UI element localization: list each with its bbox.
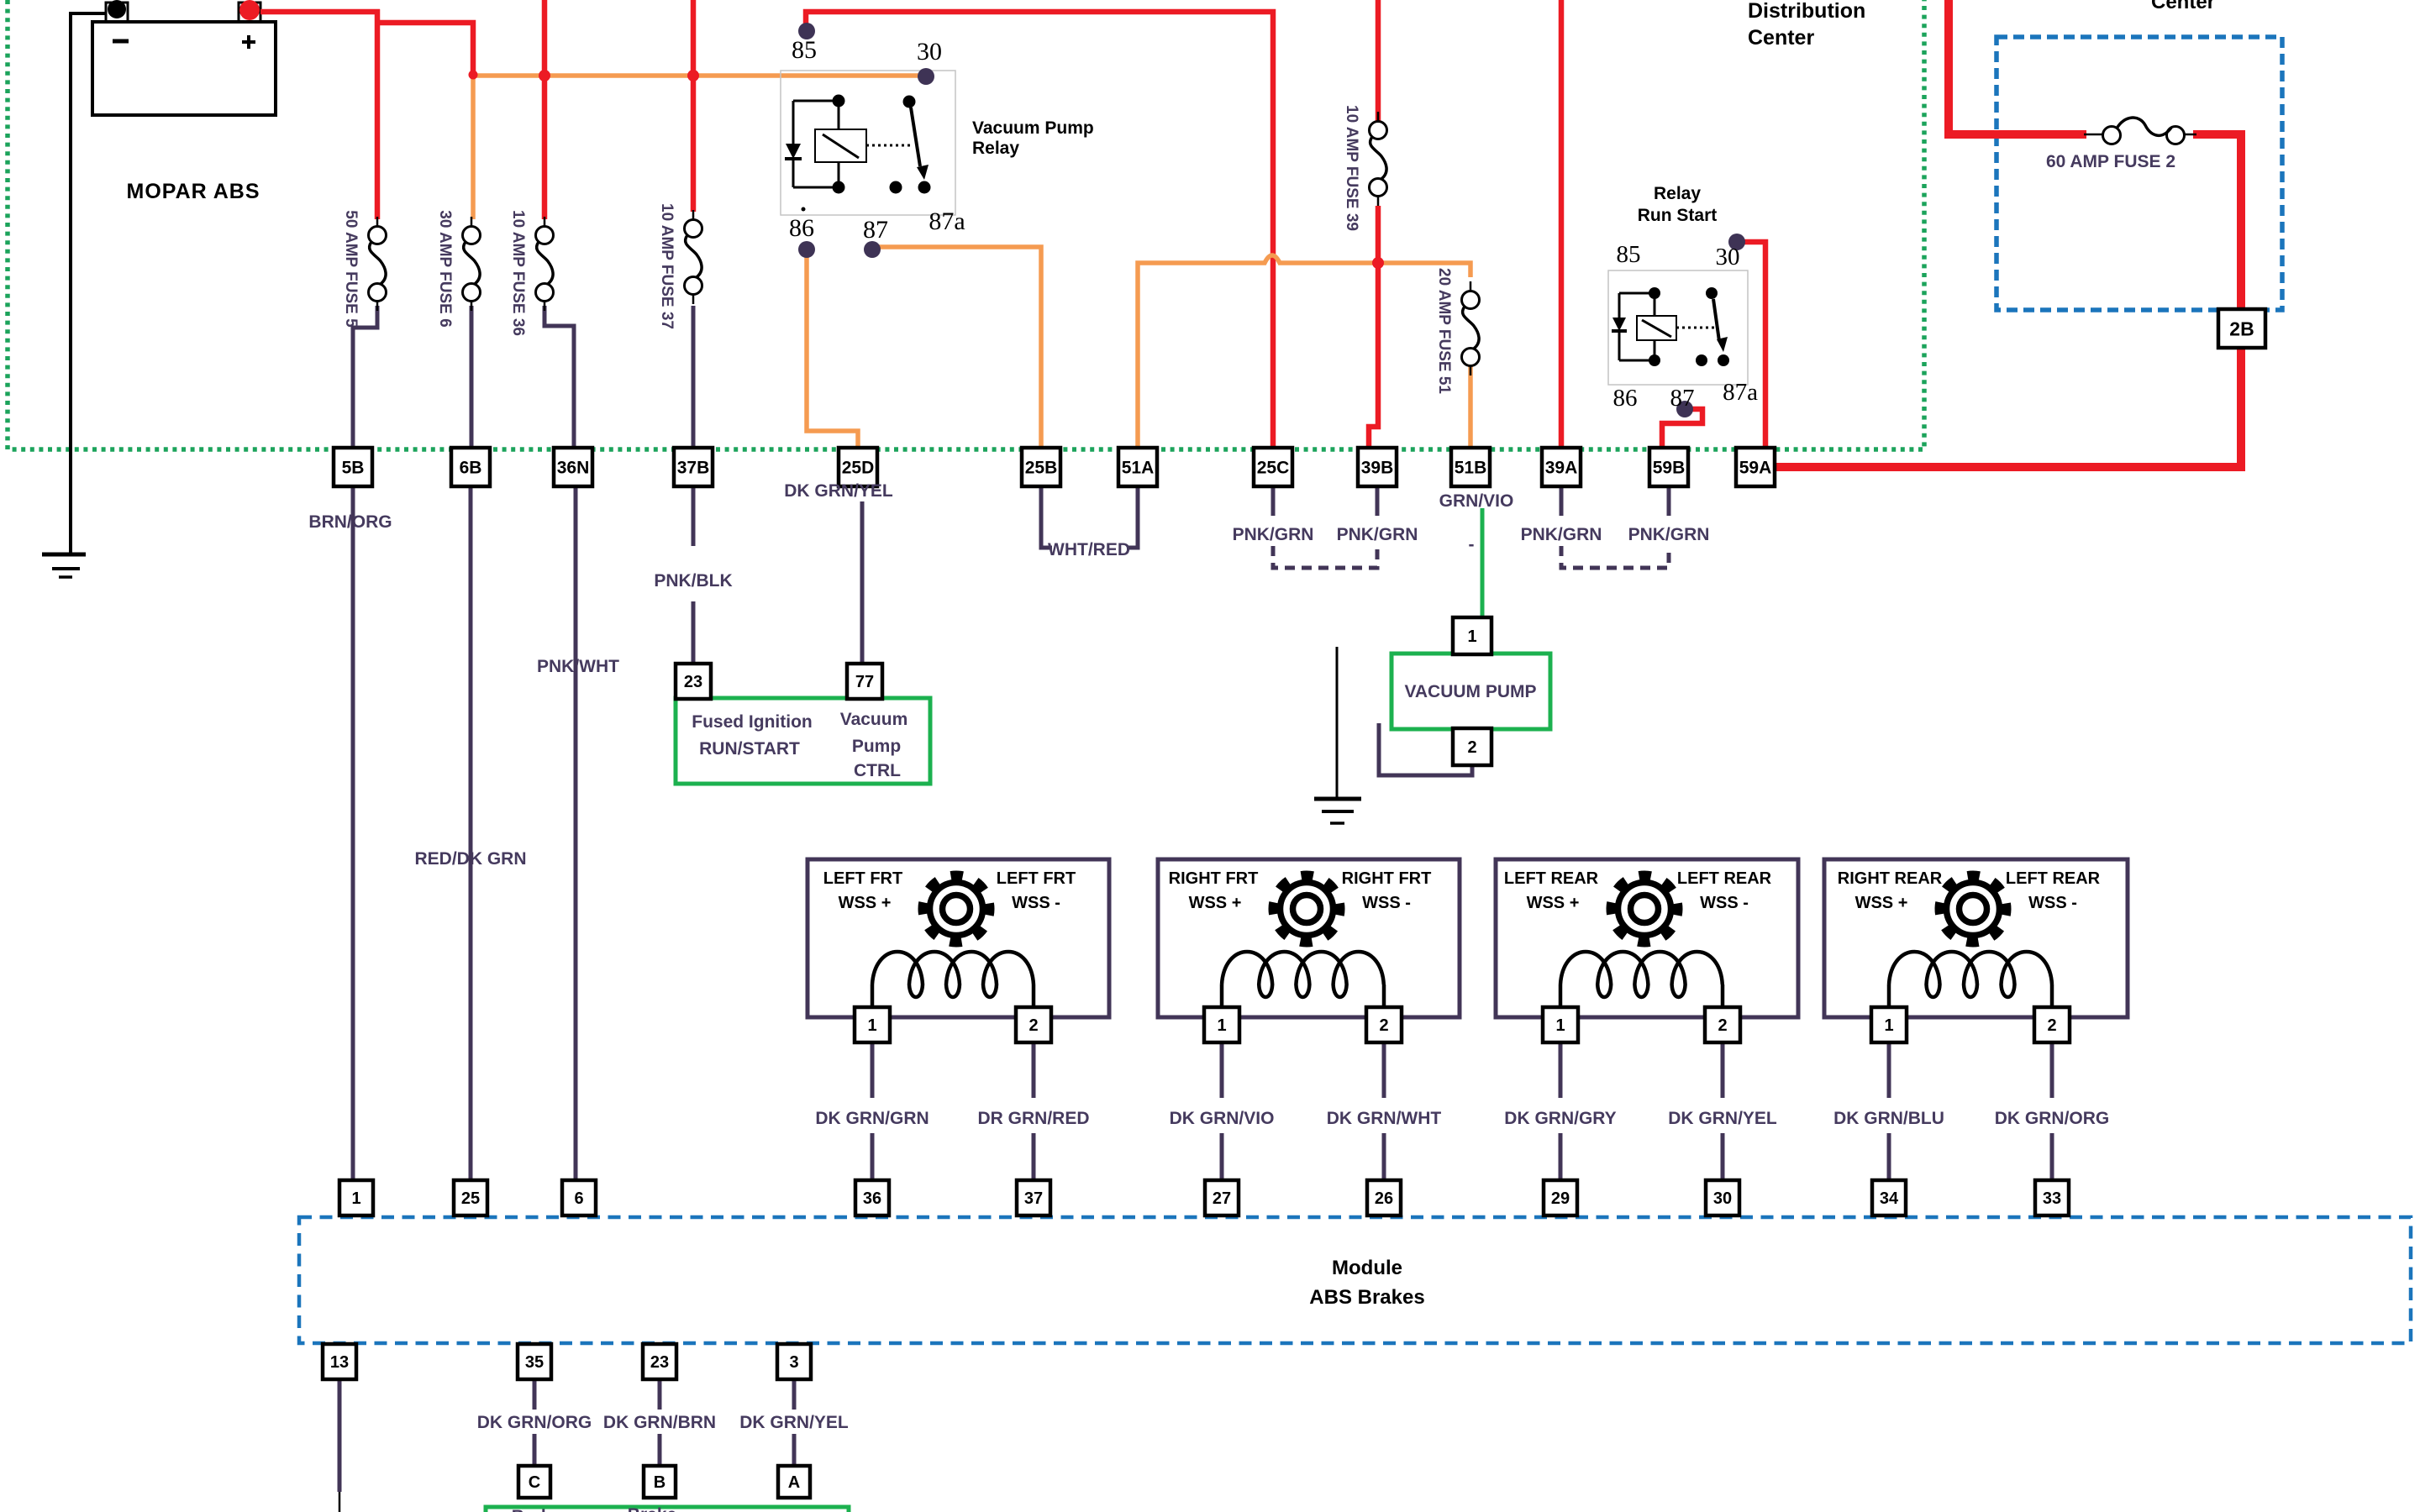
fuse F36 10 AMP [536,217,554,311]
svg-text:ABS Brakes: ABS Brakes [1309,1286,1424,1309]
green dotted border of MOPAR ABS region [8,0,1924,449]
label 50 AMP FUSE 5 [342,210,360,328]
svg-text:86: 86 [1613,385,1638,412]
wire stub 39B (PNK/GRN) [1376,485,1380,516]
svg-text:25D: 25D [842,459,875,478]
svg-text:Center: Center [1748,26,1814,50]
svg-text:DK GRN/YEL: DK GRN/YEL [784,481,893,501]
wire label DK GRN/YEL (module bottom) [739,1413,849,1432]
fuse F5 50 AMP [369,217,387,311]
fuse F37 10 AMP [685,210,702,304]
wire stub 59B (PNK/GRN) [1667,486,1671,516]
connector 59B [1649,448,1688,486]
wire fuse36 to 36N [544,306,574,449]
dashed tie 25C-39B [1273,546,1377,568]
svg-text:WSS -: WSS - [1012,894,1060,912]
connector 2B [2218,309,2265,348]
wire module pin 13 down [338,1378,342,1512]
relay K1 pin 86 terminal [798,241,815,258]
wire 6B to module pin 25 (RED/DK GRN) [469,486,473,1182]
svg-text:27: 27 [1213,1189,1231,1208]
svg-text:5B: 5B [342,459,365,478]
svg-text:RIGHT FRT: RIGHT FRT [1342,869,1432,888]
module top connector 37 [1017,1180,1050,1215]
module top connector 30 [1706,1180,1739,1215]
svg-text:WSS -: WSS - [2028,894,2077,912]
module top connector 6 [562,1180,596,1215]
svg-text:Brake: Brake [512,1507,560,1512]
wire label DK GRN/YEL (25D) [784,481,893,501]
svg-text:59A: 59A [1739,459,1772,478]
relay K1 pin 87 terminal [864,241,881,258]
svg-text:85: 85 [1617,241,1641,268]
wire thick red 2B to 59A [1775,346,2241,467]
wire 5B to module pin 1 (BRN/ORG) [351,486,355,1182]
svg-text:85: 85 [792,36,817,64]
svg-text:Vacuum: Vacuum [840,710,908,729]
svg-text:77: 77 [855,673,874,691]
label Fused Ignition RUN/START [692,712,812,759]
wire fuse5 to 5B [353,306,377,449]
WSS LEFT REAR connector 1 [1543,1007,1578,1042]
connector 51A [1118,448,1157,486]
svg-text:30: 30 [1713,1189,1732,1208]
wire WSS to module pin 37 [1032,1042,1036,1182]
wire label PNK/GRN (59B) [1628,525,1710,544]
wire module pin 3 to A [792,1378,797,1468]
module top connector 26 [1367,1180,1401,1215]
connector A (brake) [778,1466,810,1498]
svg-text:A: A [788,1473,800,1492]
svg-text:Relay: Relay [1654,184,1701,203]
svg-text:CTRL: CTRL [854,761,901,780]
svg-text:PNK/BLK: PNK/BLK [654,571,732,591]
svg-text:39A: 39A [1545,459,1578,478]
connector C (brake) [518,1466,550,1498]
svg-text:WSS +: WSS + [1527,894,1580,912]
svg-text:87a: 87a [1723,379,1758,406]
wire 37B to pin 23 (PNK/BLK) [692,486,696,664]
svg-text:WSS +: WSS + [839,894,892,912]
svg-text:WSS -: WSS - [1362,894,1411,912]
wire orange fuse51 top bus to 51A (hop over red) [1138,255,1470,449]
wire label DK GRN/BRN (module bottom) [603,1413,716,1432]
label Vacuum Pump Relay [972,118,1094,158]
relay K2 pin label 86 [1613,385,1638,412]
junction orange bus / fuse36 feed [539,70,550,81]
svg-text:Fused Ignition: Fused Ignition [692,712,812,732]
svg-text:Module: Module [1332,1257,1402,1279]
wire label DK GRN/ORG (module bottom) [477,1413,592,1432]
label Center (top right, clipped) [2151,0,2215,13]
svg-text:Relay: Relay [972,139,1019,158]
svg-text:35: 35 [525,1353,544,1372]
relay K1 pin label 85 [792,36,817,64]
svg-text:86: 86 [789,214,814,242]
wire fuse37 to 37B [692,306,696,449]
svg-text:6B: 6B [460,459,482,478]
svg-text:3: 3 [789,1353,798,1372]
svg-text:Center: Center [2151,0,2215,13]
svg-text:1: 1 [351,1189,360,1208]
fuse F2 60 AMP [2084,118,2196,144]
svg-text:LEFT FRT: LEFT FRT [997,869,1076,888]
svg-text:59B: 59B [1653,459,1686,478]
blue dashed box Module ABS Brakes [299,1217,2411,1343]
wire module pin 35 to C [533,1378,537,1468]
connector 5B [334,448,372,486]
svg-text:26: 26 [1375,1189,1393,1208]
wire label DK GRN/BLU [1833,1109,1944,1128]
relay K1 Vacuum Pump Relay body [781,71,955,215]
svg-text:PNK/GRN: PNK/GRN [1233,525,1314,544]
svg-text:39B: 39B [1361,459,1394,478]
label 10 AMP FUSE 37 [658,203,676,329]
svg-text:50 AMP FUSE 5: 50 AMP FUSE 5 [342,210,360,328]
relay K1 pin label 86 [789,214,814,242]
svg-text:51A: 51A [1122,459,1155,478]
wire orange to fuse 6 [471,74,476,219]
label Module ABS Brakes [1309,1257,1424,1309]
wire green GRN/VIO 51B to vacuum pump 1 [1481,508,1485,619]
wire vacuum pump pin2 to ground [1379,723,1472,775]
box brake (bottom, clipped) [486,1507,849,1512]
module top connector 33 [2035,1180,2069,1215]
svg-text:37B: 37B [677,459,710,478]
svg-text:23: 23 [650,1353,669,1372]
wire label PNK/GRN (39B) [1337,525,1418,544]
svg-text:34: 34 [1880,1189,1899,1208]
wire battery positive bus [260,9,380,15]
svg-text:2: 2 [1467,738,1476,757]
relay K1 pin 85 terminal [798,23,815,39]
wire red from top to fuse 39 [1376,0,1381,122]
junction orange bus / fuse37 feed [687,70,699,81]
svg-text:LEFT REAR: LEFT REAR [1677,869,1772,888]
svg-text:B: B [654,1473,665,1492]
module top connector 34 [1872,1180,1906,1215]
wire label DK GRN/YEL [1668,1109,1777,1128]
fuse F39 10 AMP [1370,112,1387,206]
svg-text:DK GRN/BRN: DK GRN/BRN [603,1413,716,1432]
label 20 AMP FUSE 51 [1435,268,1453,394]
svg-text:29: 29 [1551,1189,1570,1208]
connector 25B [1022,448,1060,486]
box Fused Ignition RUN-START / Vacuum Pump CTRL [676,698,930,784]
wire red from top to fuse 37 [691,0,697,212]
svg-text:87: 87 [863,216,888,244]
svg-text:2: 2 [1379,1016,1388,1035]
label VACUUM PUMP [1404,682,1536,701]
wheel speed sensor box RIGHT FRT WSS [1158,859,1460,1017]
WSS RIGHT REAR connector 1 [1871,1007,1907,1042]
svg-text:WSS +: WSS + [1189,894,1242,912]
svg-text:DK GRN/WHT: DK GRN/WHT [1327,1109,1442,1128]
wire thick red from top to 60A fuse [1949,0,2086,134]
module bottom connector 35 [518,1344,551,1379]
ground lead vacuum pump [1336,647,1339,799]
fuse F6 30 AMP [463,217,481,311]
battery [92,0,276,115]
relay K1 pin label 30 [917,38,942,66]
svg-text:Pump: Pump [852,737,901,756]
label 30 AMP FUSE 6 [436,210,454,327]
relay K1 pin label 87 [863,216,888,244]
WSS RIGHT FRT connector 1 [1204,1007,1239,1042]
svg-text:1: 1 [1467,627,1476,646]
svg-text:DK GRN/YEL: DK GRN/YEL [739,1413,849,1432]
module top connector 36 [855,1180,889,1215]
svg-text:30: 30 [917,38,942,66]
WSS LEFT REAR connector 2 [1705,1007,1740,1042]
relay K2 Run Start body [1608,270,1748,385]
wire WSS to module pin 29 [1559,1042,1563,1182]
label Vacuum Pump CTRL [840,710,908,780]
svg-text:1: 1 [867,1016,876,1035]
wire label BRN/ORG [308,512,392,532]
wire WSS to module pin 26 [1382,1042,1386,1182]
svg-text:Vacuum Pump: Vacuum Pump [972,118,1094,138]
wire battery negative [71,13,106,554]
wire red relay30 to 59A [1737,242,1765,456]
wire thick red 60A fuse to 2B [2193,134,2241,312]
svg-text:WHT/RED: WHT/RED [1048,540,1130,559]
wire red relay87 to 59B [1662,409,1702,456]
svg-text:33: 33 [2043,1189,2061,1208]
wire orange bus to relay pin 30 [473,73,921,78]
wheel speed sensor box RIGHT REAR WSS [1824,859,2128,1017]
wire WSS to module pin 36 [871,1042,875,1182]
svg-text:RIGHT REAR: RIGHT REAR [1838,869,1943,888]
svg-text:Brake: Brake [628,1505,676,1512]
svg-text:25: 25 [461,1189,480,1208]
svg-text:RUN/START: RUN/START [699,739,800,759]
relay K2 pin label 85 [1617,241,1641,268]
svg-text:-: - [1469,535,1475,554]
svg-text:MOPAR ABS: MOPAR ABS [127,180,260,203]
svg-text:DR GRN/RED: DR GRN/RED [977,1109,1089,1128]
vacuum pump M1 box [1391,654,1550,729]
relay K1 pin label 87a [929,207,965,235]
wire label DK GRN/WHT [1327,1109,1442,1128]
wire WSS to module pin 33 [2050,1042,2054,1182]
svg-text:PNK/WHT: PNK/WHT [537,657,619,676]
wire label DK GRN/GRN [815,1109,929,1128]
module top connector 1 [339,1180,373,1215]
svg-text:25B: 25B [1025,459,1058,478]
connector 25C [1254,448,1292,486]
blue dashed box Power Distribution Center [1996,37,2282,310]
svg-text:WSS -: WSS - [1700,894,1749,912]
wire label PNK/WHT [537,657,619,676]
svg-text:Run Start: Run Start [1638,206,1718,225]
svg-text:2: 2 [1718,1016,1727,1035]
svg-text:1: 1 [1555,1016,1565,1035]
connector 6B [451,448,490,486]
wire red fuse 39 to 39B [1369,206,1378,451]
wire 25D to pin 77 (DK GRN/YEL) [860,501,865,664]
label Distribution Center [1748,0,1865,50]
svg-text:6: 6 [574,1189,583,1208]
label MOPAR ABS [127,180,260,203]
ground G2 (vacuum pump) [1314,799,1361,823]
connector B (brake) [644,1466,676,1498]
svg-text:DK GRN/GRY: DK GRN/GRY [1504,1109,1616,1128]
relay K2 pin label 87 [1670,385,1695,412]
wire label DK GRN/ORG [1995,1109,2110,1128]
connector pin 77 (vacuum pump ctrl) [847,664,882,699]
relay K2 pin 30 terminal [1728,234,1745,250]
svg-text:2: 2 [2047,1016,2056,1035]
wire red from top to 39A [1559,0,1565,456]
relay K1 pin 30 terminal [918,68,934,85]
svg-text:23: 23 [684,673,702,691]
module bottom connector 13 [323,1344,356,1379]
svg-text:10 AMP FUSE 37: 10 AMP FUSE 37 [658,203,676,329]
ground G1 (battery) [42,554,86,577]
svg-text:C: C [529,1473,540,1492]
svg-text:87: 87 [1670,385,1695,412]
wire orange relay87 to 25B [872,247,1041,449]
svg-text:1: 1 [1884,1016,1893,1035]
wire 36N to module pin 6 (PNK/WHT) [574,486,578,1182]
connector 51B [1451,448,1490,486]
wire WSS to module pin 30 [1721,1042,1725,1182]
label 60 AMP FUSE 2 [2046,152,2175,171]
svg-text:DK GRN/GRN: DK GRN/GRN [815,1109,929,1128]
svg-text:30: 30 [1716,244,1740,270]
svg-text:LEFT FRT: LEFT FRT [823,869,902,888]
connector 39A [1542,448,1581,486]
connector 36N [554,448,592,486]
svg-text:87a: 87a [929,207,965,235]
connector 37B [674,448,713,486]
svg-text:BRN/ORG: BRN/ORG [308,512,392,532]
relay K2 pin label 87a [1723,379,1758,406]
wire label PNK/BLK [654,571,732,591]
svg-text:GRN/VIO: GRN/VIO [1439,491,1514,511]
wire label PNK/GRN (25C) [1233,525,1314,544]
module bottom connector 3 [777,1344,811,1379]
svg-text:2: 2 [1028,1016,1038,1035]
svg-text:DK GRN/YEL: DK GRN/YEL [1668,1109,1777,1128]
vacuum pump connector 2 [1453,728,1491,765]
label Brake (clipped) [512,1505,676,1512]
svg-text:DK GRN/ORG: DK GRN/ORG [477,1413,592,1432]
svg-text:DK GRN/ORG: DK GRN/ORG [1995,1109,2110,1128]
WSS LEFT FRT connector 1 [855,1007,890,1042]
wire stub 39A (PNK/GRN) [1560,486,1564,516]
wire label DK GRN/VIO [1170,1109,1275,1128]
svg-text:36N: 36N [557,459,590,478]
wire WSS to module pin 34 [1887,1042,1891,1182]
wire label minus (GRN/VIO) [1469,535,1475,554]
connector 59A [1736,448,1775,486]
wire label DR GRN/RED [977,1109,1089,1128]
connector 39B [1358,448,1397,486]
label 10 AMP FUSE 36 [509,210,527,336]
svg-text:RIGHT FRT: RIGHT FRT [1169,869,1259,888]
junction fuse39 output / fuse51 bus [1372,257,1384,269]
svg-text:VACUUM PUMP: VACUUM PUMP [1404,682,1536,701]
relay K2 pin 87 terminal [1676,401,1693,417]
svg-text:DK GRN/VIO: DK GRN/VIO [1170,1109,1275,1128]
svg-text:60 AMP FUSE 2: 60 AMP FUSE 2 [2046,152,2175,171]
wire orange fuse51 to 51B [1468,366,1473,449]
wire red to fuse 5 [375,9,381,219]
svg-text:13: 13 [330,1353,349,1372]
svg-text:PNK/GRN: PNK/GRN [1521,525,1602,544]
svg-text:1: 1 [1217,1016,1226,1035]
wire stub 25C (PNK/GRN) [1271,485,1276,516]
relay K2 pin label 30 [1716,244,1740,270]
wire red from top to fuse 36 [542,0,548,219]
svg-text:Distribution: Distribution [1748,0,1865,23]
connector pin 23 (fused ignition) [676,664,711,699]
wire red bus to relay 85 and 25C [806,12,1273,449]
WSS RIGHT FRT connector 2 [1366,1007,1402,1042]
module bottom connector 23 [643,1344,676,1379]
connector 25D [839,448,877,486]
svg-text:DK GRN/BLU: DK GRN/BLU [1833,1109,1944,1128]
svg-text:WSS +: WSS + [1855,894,1908,912]
svg-text:PNK/GRN: PNK/GRN [1337,525,1418,544]
wire label GRN/VIO [1439,491,1514,511]
wire stub 25B (WHT/RED) [1041,485,1052,548]
wire label PNK/GRN (39A) [1521,525,1602,544]
wire red step to fuse 6 [377,23,473,76]
wire orange relay86 to 25D [807,255,858,448]
vacuum pump connector 1 [1453,617,1491,654]
svg-text:2B: 2B [2229,318,2254,339]
svg-text:51B: 51B [1455,459,1487,478]
WSS RIGHT REAR connector 2 [2034,1007,2070,1042]
wire WSS to module pin 27 [1220,1042,1224,1182]
label Relay Run Start [1638,184,1718,225]
wheel speed sensor box LEFT REAR WSS [1496,859,1798,1017]
WSS LEFT FRT connector 2 [1016,1007,1051,1042]
module top connector 27 [1205,1180,1239,1215]
svg-text:37: 37 [1024,1189,1043,1208]
svg-text:10 AMP FUSE 36: 10 AMP FUSE 36 [509,210,527,336]
svg-text:10 AMP FUSE 39: 10 AMP FUSE 39 [1343,105,1360,231]
wheel speed sensor box LEFT FRT WSS [808,859,1109,1017]
svg-text:LEFT REAR: LEFT REAR [1504,869,1599,888]
svg-text:36: 36 [863,1189,881,1208]
wire label RED/DK GRN [414,849,526,869]
wire module pin 23 to B [658,1378,662,1468]
module top connector 25 [454,1180,487,1215]
wire label WHT/RED [1048,540,1130,559]
module top connector 29 [1544,1180,1577,1215]
wire label DK GRN/GRY [1504,1109,1616,1128]
fuse F51 20 AMP [1462,281,1480,375]
junction battery feed / fuse6 branch [469,71,478,80]
svg-text:LEFT REAR: LEFT REAR [2006,869,2101,888]
svg-text:30 AMP FUSE 6: 30 AMP FUSE 6 [436,210,454,327]
dashed tie 39A-59B [1561,546,1669,568]
svg-text:PNK/GRN: PNK/GRN [1628,525,1710,544]
svg-text:20 AMP FUSE 51: 20 AMP FUSE 51 [1435,268,1453,394]
svg-text:25C: 25C [1257,459,1290,478]
wire fuse6 to 6B [470,306,474,449]
wire stub 51A (WHT/RED) [1127,485,1138,548]
label 10 AMP FUSE 39 [1343,105,1360,231]
